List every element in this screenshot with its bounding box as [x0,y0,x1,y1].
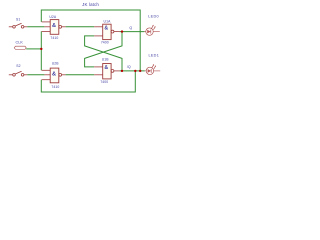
LED1 anode lead [145,70,146,72]
wire U2A output to U1A input1 [66,26,95,28]
junction /Q at top feedback [139,70,141,72]
svg-text:&: & [104,65,108,71]
LED0 emission arrow 1 [152,26,154,29]
svg-text:CLK: CLK [15,41,23,45]
nand gate U1B [94,64,119,79]
junction CLK [40,48,42,50]
switch S2 [9,71,27,76]
output pin [114,31,120,33]
nand gate U2B [42,68,66,83]
S2 lever [15,71,21,74]
svg-text:&: & [104,26,108,32]
pin input 1 [94,26,103,28]
pin input 1 [94,66,103,68]
LED0 cathode bar [150,30,152,34]
nand gate U1A [94,24,119,39]
svg-text:LED1: LED1 [148,54,159,58]
svg-text:&: & [52,71,56,77]
svg-text:/Q: /Q [127,65,131,69]
LED0 envelope circle [146,28,153,35]
LED0 diode triangle [147,30,151,34]
wire bottom feedback /Q down and around to U2B bottom input [41,71,135,92]
LED1 cathode lead [154,70,161,72]
wire /Q to LED1 [120,70,145,72]
pin input 2 [94,35,103,37]
svg-text:LED0: LED0 [148,14,159,18]
junction Q [121,30,123,32]
output bubble [59,73,62,76]
wire U1A in2 bracket + diagonal down to /Q junction [85,36,122,71]
wire CLK horizontal [26,48,41,50]
output bubble [111,30,114,33]
pin bottom [42,79,51,81]
U1A body [103,24,111,39]
pin middle [44,26,50,28]
wire Q to LED0 [120,31,145,33]
output bubble [111,70,114,73]
U2A body [50,20,59,35]
pin top [42,21,51,23]
LED1 arrowhead 1 [153,64,154,66]
pin bottom [42,30,51,32]
LED1 diode triangle [148,69,152,73]
LED0 arrowhead 1 [152,25,153,27]
wire CLK vertical to U2A bottom input [40,31,42,49]
LED0 anode lead [144,31,145,33]
LED1 envelope circle [146,67,153,74]
LED1 emission arrow 1 [152,65,154,68]
svg-text:JK latch: JK latch [82,2,99,7]
svg-text:U2A: U2A [49,15,57,19]
output pin [62,74,66,76]
nand gate U2A [42,20,66,35]
S1 pole contact [13,26,16,29]
LED1 arrowhead 2 [155,65,156,67]
LED1 emission arrow 2 [154,66,156,69]
output bubble [59,25,62,28]
svg-text:Q: Q [129,26,132,30]
LED0 arrowhead 2 [154,26,155,28]
S1 pin 1 lead [9,26,13,28]
svg-text:&: & [52,23,56,29]
svg-text:U1A: U1A [104,20,112,24]
junction /Q at cross vertical [121,70,123,72]
LED0 [144,25,159,36]
S1 lever [15,23,21,26]
pin top [42,69,51,71]
LED1 cathode bar [150,69,152,73]
svg-text:U2B: U2B [52,61,60,65]
svg-text:S1: S1 [16,18,20,22]
pin input 2 [94,74,103,76]
wire U2B output to U1B input2 [66,74,95,76]
wire Q junction diagonal down to U1B in1 [85,32,122,67]
LED1 [145,64,160,75]
svg-text:7400: 7400 [101,40,109,44]
LED0 emission arrow 2 [153,27,155,30]
S1 pin 2 lead [24,26,27,28]
svg-text:S2: S2 [16,64,20,68]
S1 throw contact [21,26,24,29]
wire S1 to U2A middle input [27,26,44,28]
wire top feedback from /Q up and over to U2A top input [41,10,140,71]
junction /Q at bottom feedback [134,70,136,72]
S2 pin 2 lead [24,74,27,76]
svg-text:7410: 7410 [51,85,59,89]
S2 throw contact [21,74,24,77]
svg-text:7410: 7410 [50,36,58,40]
S2 pole contact [13,74,16,77]
output pin [62,26,66,28]
output pin [114,70,120,72]
global label CLK [14,46,26,49]
wire CLK vertical to U2B top input [40,49,42,70]
svg-text:7400: 7400 [100,80,108,84]
switch S1 [9,23,27,28]
LED0 cathode lead [153,31,160,33]
S2 pin 1 lead [9,74,13,76]
pin middle [44,74,50,76]
U1B body [103,64,111,79]
U2B body [50,68,59,83]
wire S2 to U2B middle input [27,74,44,76]
svg-text:U1B: U1B [102,57,110,61]
